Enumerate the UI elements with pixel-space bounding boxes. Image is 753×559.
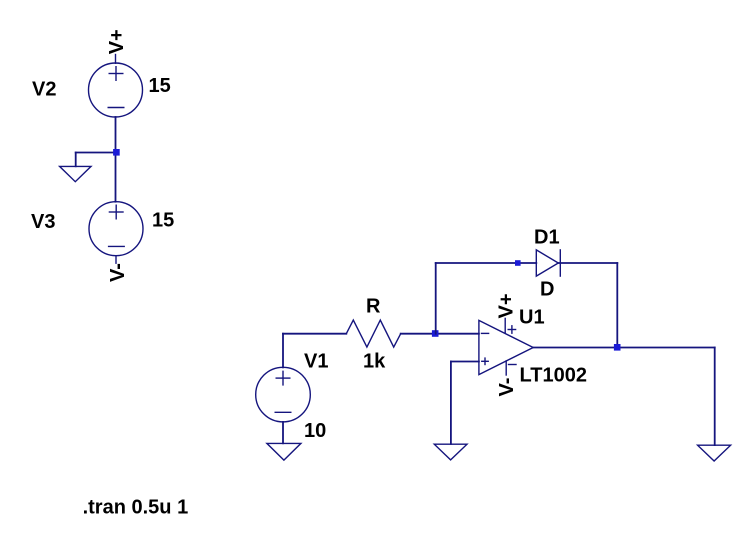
wire resistor to op-amp inverting input: [401, 333, 479, 335]
svg-text:1k: 1k: [363, 350, 386, 372]
svg-text:D: D: [540, 278, 554, 300]
svg-text:10: 10: [304, 420, 326, 442]
svg-text:U1: U1: [519, 306, 545, 328]
label D1: [534, 226, 560, 248]
ground GND4: [698, 445, 731, 461]
svg-text:V+: V+: [106, 29, 128, 54]
node junction at diode anode: [515, 260, 521, 266]
label V1: [304, 350, 328, 372]
diode D1: [536, 250, 560, 276]
ground GND3: [434, 444, 467, 460]
wire corner down to output: [616, 263, 618, 348]
label R: [366, 295, 381, 317]
node junction J1: [113, 149, 120, 156]
label 15 (V2 value): [149, 75, 171, 97]
node junction J3: [614, 344, 621, 351]
svg-text:R: R: [366, 295, 381, 317]
resistor R: [346, 320, 400, 347]
svg-text:15: 15: [149, 75, 171, 97]
wire junction to V3 top: [115, 152, 117, 201]
svg-text:V1: V1: [304, 350, 328, 372]
wire V2 bottom to junction: [115, 117, 117, 152]
flag V+ net label above op-amp: [495, 293, 517, 318]
wire noninverting down to ground: [450, 362, 452, 444]
flag V- net label below V3: [107, 263, 129, 282]
wire feedback horizontal to diode anode: [436, 262, 537, 264]
label V2: [32, 78, 56, 100]
ground GND2 under V1: [267, 443, 301, 460]
label U1: [519, 306, 545, 328]
voltage source V1: [256, 367, 311, 422]
svg-text:V+: V+: [495, 293, 517, 318]
label 1k: [363, 350, 386, 372]
svg-text:.tran 0.5u 1: .tran 0.5u 1: [83, 496, 189, 518]
wire op-amp noninverting input: [451, 361, 479, 363]
node junction J2: [432, 330, 439, 337]
label 15 (V3 value): [152, 209, 174, 231]
wire feedback vertical up: [435, 263, 437, 334]
label LT1002: [520, 364, 587, 386]
svg-text:V2: V2: [32, 78, 56, 100]
svg-text:D1: D1: [534, 226, 560, 248]
flag V- net label below op-amp: [496, 378, 518, 397]
label V3: [31, 211, 55, 233]
wire op-amp output: [533, 347, 715, 349]
svg-text:15: 15: [152, 209, 174, 231]
wire output down to ground: [714, 348, 716, 446]
svg-text:LT1002: LT1002: [520, 364, 587, 386]
flag V+ net label above V2: [106, 29, 128, 54]
wire ground stub vertical: [75, 153, 77, 167]
svg-text:V3: V3: [31, 211, 55, 233]
wire V1 bottom to ground: [282, 422, 284, 443]
svg-text:V-: V-: [496, 378, 518, 397]
op-amp U1: [479, 318, 533, 375]
spice directive .tran: [83, 496, 189, 518]
wire junction to ground stub horizontal: [76, 152, 116, 154]
voltage source V3: [89, 202, 143, 264]
ground GND1: [60, 166, 91, 181]
wire diode cathode to corner: [558, 262, 617, 264]
label D: [540, 278, 554, 300]
wire V1 top lead up: [282, 334, 284, 368]
label 10 (V1 value): [304, 420, 326, 442]
wire V1 to resistor: [283, 333, 346, 335]
svg-text:V-: V-: [107, 263, 129, 282]
voltage source V2: [89, 55, 143, 118]
